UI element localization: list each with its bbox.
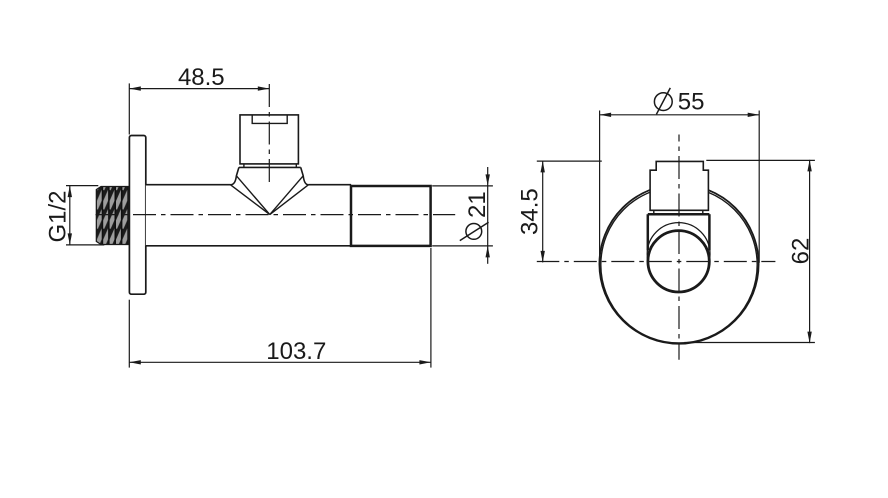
svg-text:21: 21 [464,191,491,218]
svg-text:34.5: 34.5 [516,188,543,235]
svg-text:55: 55 [678,89,705,116]
svg-text:G1/2: G1/2 [45,190,72,242]
svg-text:103.7: 103.7 [266,338,326,365]
svg-text:62: 62 [787,238,814,265]
svg-text:48.5: 48.5 [178,64,225,91]
